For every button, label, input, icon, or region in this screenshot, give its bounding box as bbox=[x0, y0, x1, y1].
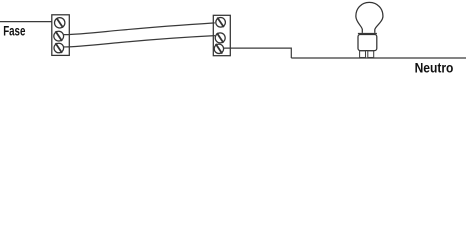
wire: neutral run along bottom to right edge bbox=[291, 57, 466, 59]
screw terminal TB2-1 bbox=[216, 18, 226, 28]
wire: fase feed from left edge to TB1 bbox=[0, 21, 52, 23]
lamp LP1 contact foot 1 bbox=[360, 51, 366, 58]
terminal block TB2 bbox=[213, 15, 230, 55]
terminal block TB1 bbox=[52, 15, 70, 56]
svg-text:Fase: Fase bbox=[3, 23, 25, 38]
lamp LP1 contact foot 2 bbox=[368, 51, 374, 58]
screw terminal TB1-3 bbox=[54, 43, 64, 53]
screw terminal TB2-2 bbox=[215, 33, 225, 43]
lamp LP1 base bbox=[358, 35, 377, 51]
screw terminal TB1-1 bbox=[55, 18, 65, 28]
lamp LP1 flange bbox=[358, 33, 377, 35]
svg-text:Neutro: Neutro bbox=[415, 61, 454, 77]
screw terminal TB2-3 bbox=[214, 44, 223, 54]
screw terminal TB1-2 bbox=[54, 31, 64, 41]
lamp LP1 bulb glass bbox=[356, 2, 383, 33]
wire: lamp feed from TB2-3, right then down bbox=[224, 48, 292, 58]
wire: traveller B (TB1-3 to TB2-2) bbox=[64, 36, 215, 47]
wire: traveller A (TB1-2 to TB2-1) bbox=[64, 23, 215, 35]
